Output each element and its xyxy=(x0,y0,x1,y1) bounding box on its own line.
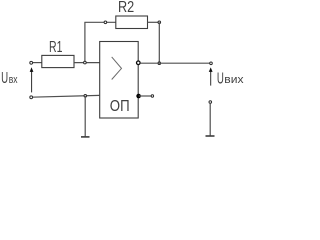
wire feedback vertical left xyxy=(84,22,86,62)
junction dot output bottom xyxy=(136,94,141,99)
node input terminal bottom xyxy=(30,96,33,99)
svg-text:U: U xyxy=(217,70,224,87)
node junction R1 feedback xyxy=(84,61,87,64)
ground terminal left tick xyxy=(81,136,90,138)
node junction feedback output xyxy=(158,62,161,65)
svg-text:ОП: ОП xyxy=(110,98,130,115)
op-amp U1 box xyxy=(100,42,139,119)
wire R1 to op-amp input xyxy=(74,62,100,64)
arrow Uвих shaft xyxy=(210,71,212,86)
node junction rail ground xyxy=(84,95,87,98)
arrow Uвх head xyxy=(30,67,34,72)
svg-text:R1: R1 xyxy=(49,39,62,56)
op-amp chevron symbol xyxy=(112,57,122,80)
wire output xyxy=(140,62,210,64)
arrow Uвих head xyxy=(209,67,213,72)
wire right terminal drop xyxy=(209,103,211,135)
wire output bottom stub xyxy=(139,95,152,97)
node bottom stub terminal xyxy=(151,95,153,97)
node output terminal xyxy=(210,62,213,65)
wire input top-left xyxy=(32,62,42,64)
wire R2 right xyxy=(148,21,160,23)
resistor R2 xyxy=(116,16,148,29)
node right terminal top xyxy=(209,101,212,104)
node R2 right pin xyxy=(158,21,161,24)
svg-text:вх: вх xyxy=(9,74,18,86)
op-amp output pin circle xyxy=(137,61,141,65)
svg-text:R2: R2 xyxy=(118,0,134,16)
wire bottom rail (inverting input) xyxy=(32,95,100,97)
ground terminal right tick xyxy=(206,135,215,137)
svg-text:U: U xyxy=(1,70,8,87)
svg-text:вих: вих xyxy=(224,74,244,86)
node input terminal top xyxy=(30,61,33,64)
wire feedback vertical right xyxy=(158,22,160,63)
arrow Uвх shaft xyxy=(31,71,33,92)
node R2 left pin xyxy=(104,21,107,24)
wire ground drop left xyxy=(84,96,86,137)
resistor R1 xyxy=(42,55,74,67)
wire R2 left xyxy=(84,21,115,23)
